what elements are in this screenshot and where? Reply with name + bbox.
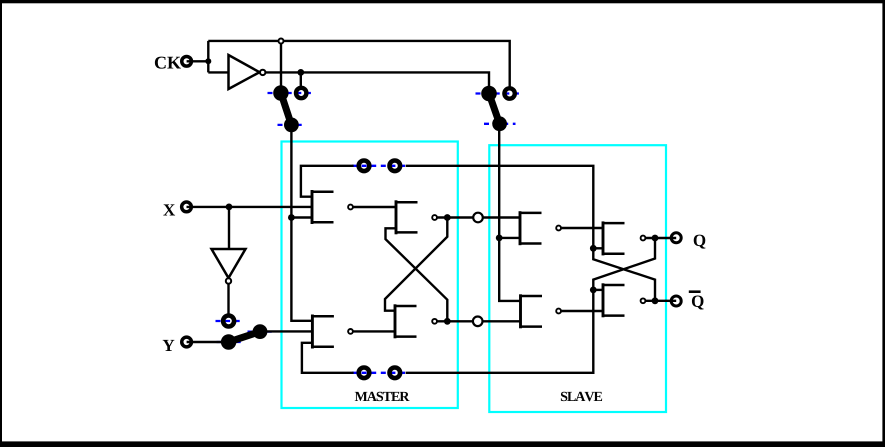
blue dashed line at S3 pivot	[217, 341, 243, 343]
blue dashed gap in top rail	[352, 165, 406, 167]
label X	[163, 204, 175, 215]
junction node M4 output	[444, 318, 451, 325]
junction node X branch	[226, 204, 233, 211]
switch S1 right contact (open)	[296, 88, 306, 98]
blue dashed phase line at CK switch S1 contacts	[216, 93, 522, 373]
inverter U2	[212, 249, 246, 284]
gate M3	[312, 315, 353, 349]
switch S2 lever	[489, 94, 500, 124]
switch S2 pivot	[492, 116, 507, 131]
wire bottom rail left segment from gate M3 bottom pin	[302, 343, 354, 373]
terminal Q	[671, 233, 681, 243]
wire gate M5 output to gate M7 input	[561, 227, 603, 229]
terminal CK	[182, 56, 192, 66]
switch S3 open contact	[223, 316, 234, 327]
rail contact ring top-right	[390, 161, 401, 172]
SLAVE box	[489, 145, 666, 412]
switch S1 pivot	[284, 118, 299, 133]
wire gate M4 output to gate M6 bottom pin	[437, 320, 521, 322]
wire slave clock vertical from S2 pivot to gate M6 top pin	[499, 124, 520, 301]
wire node to gate M8 top pin	[593, 289, 603, 291]
junction node clock to M5	[496, 235, 503, 242]
wire top rail left segment from gate M1 top pin	[301, 166, 354, 197]
wire clock to gate M5 bottom pin	[499, 237, 520, 239]
gate M2	[396, 200, 437, 234]
wire clock to gate M1 bottom pin	[291, 216, 312, 218]
junction node M8 top pin	[590, 287, 597, 294]
rail contact ring top-left	[359, 161, 370, 172]
gate M7	[603, 221, 645, 255]
rail contact ring bottom-left	[359, 368, 370, 379]
wire drop from top rail to S1 left contact	[280, 41, 282, 92]
terminal Q-bar	[671, 296, 681, 306]
wire master cross coupling B	[386, 228, 448, 321]
wire Y input to S3 pivot	[187, 341, 229, 343]
wire U2 output to S3 open contact	[227, 284, 229, 314]
terminal X	[182, 202, 192, 212]
label Q-bar	[692, 296, 704, 310]
wire CK junction to inverter U1 input	[208, 71, 228, 73]
wire S3 moving contact to gate M3	[260, 330, 312, 332]
wire gate M1 output to gate M2 input	[353, 206, 396, 208]
wire gate M6 output to gate M8 input	[561, 310, 603, 312]
wire gate M3 output to gate M4 input	[353, 330, 395, 332]
label SLAVE	[561, 392, 602, 401]
blue dashed line at S2 pivot	[484, 123, 516, 125]
label CK	[155, 57, 181, 69]
junction node inverted clock	[297, 69, 304, 76]
gate M6	[521, 294, 561, 328]
wire top clock rail CK	[208, 41, 509, 87]
gate M8	[603, 283, 645, 317]
blue dashed line at CK switch S2 contacts	[476, 92, 522, 94]
terminal Y	[182, 337, 192, 347]
junction node M2 output	[444, 214, 451, 221]
label Q	[694, 235, 706, 249]
gate M5	[520, 211, 561, 245]
wire top rail right segment into slave cross	[406, 166, 655, 301]
label MASTER	[355, 392, 410, 401]
switch S2 left contact	[481, 86, 497, 102]
switch S1 left contact	[273, 85, 288, 100]
junction node M7 output	[652, 235, 659, 242]
blue dashed line at S1 pivot	[278, 124, 306, 126]
wire Q-bar output	[646, 300, 676, 302]
hollow junction on top clock rail	[279, 39, 284, 44]
wire inverted clock branch to S1 right contact	[300, 72, 302, 86]
switch S2 right contact (open)	[504, 88, 514, 98]
inverter U1	[229, 55, 266, 89]
wire CK junction vertical	[207, 41, 209, 73]
wire slave cross from gate M7 output node to bottom rail	[406, 238, 655, 373]
wire gate M2 output to gate M5 top pin	[437, 216, 520, 218]
switch S3 lever	[229, 332, 260, 342]
wire X input to gate M1	[187, 206, 313, 208]
probe ring master-slave lower	[473, 317, 483, 327]
gate M4	[395, 304, 437, 338]
overbar of Q-bar	[689, 290, 701, 293]
probe ring master-slave upper	[473, 213, 483, 223]
gate M1	[312, 190, 353, 224]
switch S1 lever	[281, 93, 292, 125]
rail contact ring bottom-right	[390, 368, 401, 379]
wire X branch down to inverter U2	[228, 207, 230, 249]
wire U1 output to S2 left contact	[265, 72, 489, 93]
MASTER box	[282, 142, 458, 409]
label Y	[163, 340, 175, 351]
junction node M7 bottom pin	[590, 245, 597, 252]
wire node to gate M7 bottom pin	[593, 247, 603, 249]
switch S3 moving contact	[253, 324, 268, 339]
junction node at CK branch	[205, 58, 211, 64]
wire CK terminal to junction	[187, 60, 209, 62]
wire master cross coupling A	[385, 218, 447, 311]
switch S3 pivot	[221, 334, 236, 349]
junction node clock to M1	[288, 214, 295, 221]
wire Q output	[646, 237, 676, 239]
blue dashed line at S3 moving contact	[248, 330, 274, 332]
junction node M8 output	[652, 297, 659, 304]
wire master clock vertical from S1 pivot to gate M3 top pin	[291, 125, 312, 321]
blue dashed line at Y switch S3 open contact	[216, 320, 242, 322]
blue dashed gap in bottom rail	[352, 372, 406, 374]
